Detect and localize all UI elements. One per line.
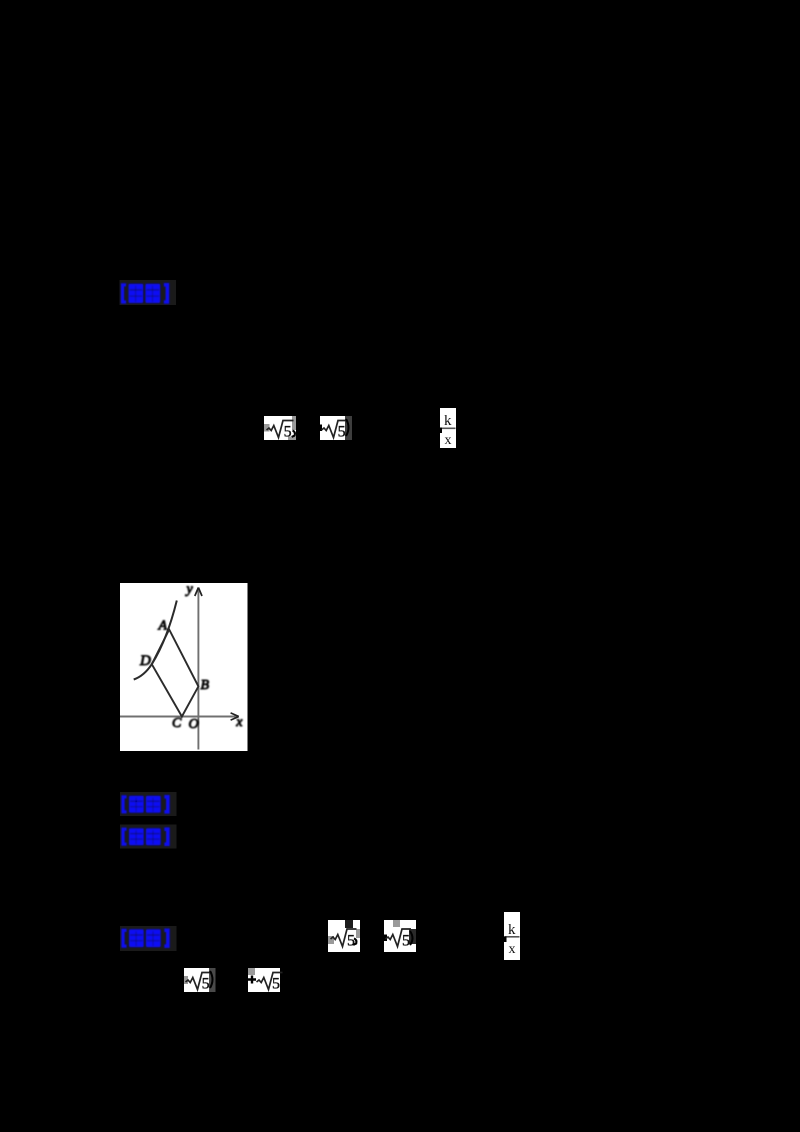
radical sign of sqrt5 #6	[257, 973, 283, 990]
equation fraction k/x (answer line)	[439, 408, 456, 448]
svg-text:x: x	[509, 942, 516, 957]
comma after sqrt5 #3	[353, 939, 356, 945]
equation sqrt5 #1 (answer line) white box	[264, 416, 296, 440]
equation sqrt5 #5 (second solution row) white box with paren	[184, 968, 216, 992]
y-axis arrow	[195, 588, 202, 597]
label 【解答】 highlight box	[120, 926, 177, 951]
equation sqrt5 #2 (answer line) white box with paren	[320, 416, 353, 440]
svg-text:O: O	[189, 717, 199, 732]
gray artifacts around sqrt5 #1	[292, 416, 296, 430]
svg-text:5: 5	[272, 975, 280, 992]
closing paren of sqrt5 #4	[410, 931, 413, 945]
y-axis	[197, 589, 199, 750]
x-axis arrow	[231, 713, 239, 720]
svg-text:5: 5	[284, 423, 292, 440]
svg-text:5: 5	[402, 932, 410, 949]
svg-text:B: B	[201, 678, 210, 693]
radical sign of sqrt5 #1	[267, 421, 294, 438]
radical sign of sqrt5 #5	[186, 973, 213, 990]
svg-text:C: C	[172, 716, 182, 731]
blue glyphs of label	[123, 828, 168, 845]
rhombus ABCD	[152, 630, 199, 717]
label 【分析】 highlight box	[120, 825, 177, 849]
label 【答案】 highlight box	[120, 280, 177, 305]
svg-text:x: x	[235, 715, 243, 730]
radical sign of sqrt5 #2	[322, 421, 349, 438]
svg-text:y: y	[185, 582, 194, 597]
svg-text:x: x	[445, 433, 452, 448]
hyperbola curve	[134, 601, 177, 680]
svg-text:5: 5	[202, 975, 210, 992]
radical sign of sqrt5 #4	[386, 929, 412, 947]
equation sqrt5 #4 (solution line) white box with paren	[384, 920, 416, 952]
label 【考点】 highlight box	[120, 792, 177, 816]
fraction bar (solution)	[505, 936, 520, 938]
equation sqrt5 #3 (solution line) white box	[328, 920, 360, 952]
svg-text:A: A	[158, 619, 168, 634]
radical sign of sqrt5 #3	[331, 929, 357, 947]
comma after sqrt5 #1	[292, 431, 295, 437]
x-axis	[120, 716, 238, 718]
svg-text:5: 5	[338, 423, 346, 440]
blue glyphs of label	[123, 796, 168, 813]
equation fraction k/x (solution line)	[504, 912, 521, 960]
closing paren of sqrt5 #2	[346, 419, 349, 436]
equals-notch at left	[439, 428, 442, 434]
equation sqrt5 #6 (second solution row, with plus)	[248, 968, 283, 992]
svg-text:k: k	[444, 413, 452, 429]
svg-text:5: 5	[347, 932, 355, 949]
svg-text:k: k	[508, 922, 516, 938]
equals-notch at left (solution)	[504, 937, 507, 943]
blue glyphs of label	[123, 284, 168, 303]
svg-text:D: D	[139, 653, 151, 669]
closing paren of sqrt5 #5	[210, 971, 213, 988]
plus sign before sqrt5 #6	[248, 976, 256, 984]
blue glyphs of label	[123, 929, 168, 947]
fraction bar	[441, 428, 456, 430]
figure white box	[120, 583, 248, 751]
